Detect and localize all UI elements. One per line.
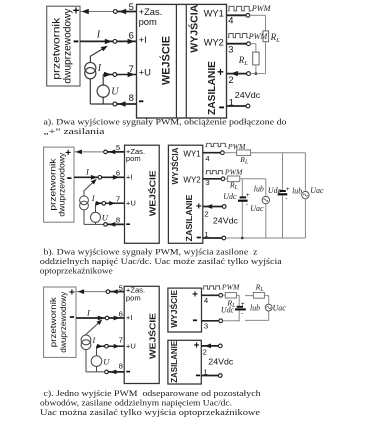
- wire 3 (c): [202, 319, 241, 323]
- wire 6 (c): [76, 307, 124, 320]
- svg-text:ZASILANIE: ZASILANIE: [184, 194, 194, 241]
- svg-text:pom: pom: [126, 154, 141, 163]
- svg-text:WYJŚCIE: WYJŚCIE: [168, 289, 179, 327]
- svg-text:5: 5: [129, 1, 134, 12]
- svg-text:ZASILANIE: ZASILANIE: [170, 340, 179, 383]
- wire 7 (c): [97, 344, 125, 349]
- svg-text:-: -: [285, 195, 287, 202]
- svg-text:6: 6: [116, 169, 120, 178]
- svg-text:lub: lub: [292, 187, 302, 196]
- svg-text:7: 7: [119, 336, 123, 345]
- svg-text:PWM: PWM: [224, 167, 243, 176]
- wire 1 (b) and common return rail: [203, 236, 306, 240]
- wire 8 (c): [86, 370, 124, 375]
- svg-text:Uac: Uac: [250, 204, 264, 213]
- wire 4 (a) with load RL to +supply: [227, 13, 281, 73]
- terminal numbers 5-8 (a): [129, 1, 134, 103]
- svg-text:Udc: Udc: [221, 305, 235, 314]
- svg-text:WEJŚCIE: WEJŚCIE: [147, 170, 158, 216]
- resistor RL1 (a): [263, 31, 269, 42]
- svg-text:obwodów, zasilane oddzielnym n: obwodów, zasilane oddzielnym napięciem U…: [40, 399, 232, 408]
- wire 4 (b): [203, 150, 306, 165]
- svg-text:„+” zasilania: „+” zasilania: [44, 127, 105, 136]
- svg-text:+I: +I: [139, 34, 147, 45]
- svg-text:WY2: WY2: [183, 175, 201, 184]
- AC source Uac (b, WY2 branch): [250, 179, 269, 238]
- alternative load loop: resistor RL + AC source Uac (c): [245, 282, 286, 320]
- svg-text:dwuprzewodowy: dwuprzewodowy: [63, 8, 74, 84]
- svg-text:U: U: [103, 356, 110, 366]
- wire 6 (b): [74, 167, 125, 180]
- svg-text:Uac: Uac: [273, 304, 287, 313]
- svg-text:2: 2: [204, 210, 208, 219]
- input terminal labels (c): [126, 286, 145, 372]
- svg-text:3: 3: [228, 44, 233, 55]
- output +/- labels (c): [192, 290, 200, 376]
- svg-text:3: 3: [204, 321, 208, 330]
- resistor RL2 (a): [253, 52, 259, 65]
- svg-text:7: 7: [116, 195, 120, 204]
- wire 1 (c): [201, 374, 222, 378]
- voltage source U (b): [91, 203, 109, 224]
- wire 6 (a): transducer - / current loop to terminal 6: [80, 29, 137, 44]
- terminal numbers 5-8 (b): [116, 143, 120, 225]
- svg-text:6: 6: [119, 309, 123, 318]
- svg-text:24Vdc: 24Vdc: [235, 90, 261, 100]
- wire 4 (c) with resistor RL: [202, 293, 240, 309]
- svg-text:PWM: PWM: [251, 4, 272, 13]
- svg-text:+: +: [65, 148, 71, 159]
- module input box (b): [125, 145, 160, 243]
- svg-text:+: +: [196, 201, 202, 212]
- wire 5 (c): [76, 289, 124, 294]
- svg-text:WY1: WY1: [183, 149, 201, 158]
- svg-text:Udc: Udc: [268, 186, 282, 195]
- wire 7 (a): to terminal 7: [103, 72, 136, 77]
- capacitor Udc (c): [221, 295, 246, 321]
- svg-text:+: +: [217, 67, 224, 79]
- svg-text:8: 8: [119, 362, 123, 371]
- current source I (a): [85, 46, 108, 104]
- voltage source U (c): [91, 346, 110, 372]
- svg-text:24Vdc: 24Vdc: [213, 217, 238, 226]
- PWM waveform (c): [203, 282, 240, 291]
- svg-text:przetwornik: przetwornik: [48, 296, 58, 347]
- svg-text:+: +: [246, 192, 250, 199]
- svg-text:WEJŚCIE: WEJŚCIE: [146, 313, 157, 359]
- terminal numbers 4,3,2,1 (a): [228, 15, 234, 108]
- svg-text:WY2: WY2: [204, 38, 224, 48]
- svg-text:-: -: [241, 310, 243, 317]
- module supply box ZASILANIE (c): [168, 340, 201, 384]
- transducer box: przetwornik dwuprzewodowy (section b): [44, 147, 74, 222]
- wire 8 (a): bottom return to terminal 8: [90, 101, 136, 106]
- output labels WY1 WY2 and +/- (b): [183, 149, 201, 237]
- wire 7 (b): [96, 201, 125, 206]
- terminal numbers 4,3,2,1 (b): [204, 154, 210, 239]
- resistor RL1 (b): [237, 150, 251, 156]
- svg-text:24Vdc: 24Vdc: [208, 357, 233, 366]
- svg-text:oddzielnych napięć Uac/dc. Uac: oddzielnych napięć Uac/dc. Uac może zasi…: [40, 257, 282, 266]
- svg-text:+I: +I: [126, 313, 133, 322]
- wire 2 (a): +24V supply: [227, 71, 266, 76]
- resistor RL2 (b): [228, 176, 240, 182]
- svg-text:+I: +I: [126, 173, 133, 182]
- svg-text:5: 5: [116, 143, 120, 152]
- wire 2 (b): +24V: [203, 204, 226, 209]
- svg-text:PWM: PWM: [248, 32, 269, 41]
- wire 2 (c): +24V: [201, 344, 222, 349]
- current source I (c): [81, 319, 102, 372]
- svg-text:Udc: Udc: [223, 192, 237, 201]
- svg-text:U: U: [111, 87, 119, 98]
- input terminal labels (b): [126, 147, 145, 224]
- svg-text:4: 4: [205, 154, 210, 163]
- transducer box: przetwornik dwuprzewodowy (section a): [47, 6, 80, 86]
- input terminal labels (a): [139, 6, 163, 101]
- svg-text:+: +: [194, 341, 200, 352]
- svg-text:6: 6: [129, 30, 134, 41]
- svg-text:dwuprzewodowy: dwuprzewodowy: [57, 152, 67, 217]
- module output box WYJSCIE (c): [168, 288, 202, 332]
- svg-text:2: 2: [228, 74, 233, 85]
- svg-text:przetwornik: przetwornik: [51, 17, 62, 80]
- wire 5 (a): transducer + to terminal 5: [80, 9, 137, 14]
- svg-text:+: +: [241, 301, 245, 308]
- svg-text:5: 5: [119, 283, 123, 292]
- wire 1 (a): supply return: [227, 104, 250, 108]
- svg-text:pom: pom: [126, 294, 141, 303]
- terminal numbers 5-8 (c): [119, 283, 123, 370]
- transducer box: przetwornik dwuprzewodowy (section c): [44, 287, 76, 357]
- main module box (a): WEJSCIE / WYJSCIA / ZASILANIE: [137, 4, 227, 118]
- svg-text:U: U: [102, 213, 109, 223]
- svg-text:dwuprzewodowy: dwuprzewodowy: [58, 291, 68, 353]
- svg-text:WY1: WY1: [204, 9, 224, 19]
- svg-text:+: +: [286, 186, 290, 193]
- wire 5 (b): [74, 150, 125, 155]
- svg-text:lub: lub: [254, 185, 264, 194]
- svg-text:Uac można zasilać tylko wyjści: Uac można zasilać tylko wyjścia optoprze…: [40, 408, 260, 417]
- svg-text:+U: +U: [139, 66, 151, 77]
- svg-text:pom: pom: [139, 16, 157, 27]
- svg-text:8: 8: [116, 216, 120, 225]
- svg-text:b). Dwa wyjściowe sygnały PWM,: b). Dwa wyjściowe sygnały PWM, wyjścia z…: [44, 248, 258, 257]
- svg-text:7: 7: [129, 63, 134, 74]
- svg-text:4: 4: [228, 15, 233, 26]
- svg-text:I: I: [97, 63, 102, 74]
- terminal numbers 4,3,2,1 (c): [203, 296, 209, 376]
- voltage source U (a): [97, 75, 119, 105]
- svg-text:4: 4: [204, 296, 209, 305]
- module input box (c): [124, 286, 159, 383]
- svg-text:WEJŚCIE: WEJŚCIE: [159, 36, 172, 85]
- capacitor Udc (b, WY1 branch): [268, 153, 290, 238]
- svg-text:-: -: [246, 201, 248, 208]
- PWM waveform WY1 (a): [228, 4, 272, 13]
- resistor RL (c): [225, 293, 236, 298]
- wire 8 (b): [84, 222, 125, 227]
- svg-text:optoprzekaźnikowe: optoprzekaźnikowe: [40, 266, 113, 275]
- svg-text:+: +: [192, 290, 198, 301]
- PWM waveform WY2 (b): [206, 167, 243, 176]
- PWM waveform WY2 (a): [228, 32, 269, 41]
- svg-text:a). Dwa wyjściowe sygnały PWM,: a). Dwa wyjściowe sygnały PWM, obciążeni…: [44, 118, 287, 127]
- capacitor Udc (b, WY2 branch): [223, 179, 250, 238]
- svg-text:WYJŚCIA: WYJŚCIA: [169, 147, 180, 184]
- svg-text:+: +: [69, 288, 75, 299]
- svg-text:lub: lub: [250, 304, 260, 313]
- current source I (b): [80, 179, 97, 225]
- svg-text:I: I: [96, 29, 101, 40]
- AC source Uac (b, WY1 branch): [292, 153, 324, 238]
- svg-text:PWM: PWM: [221, 282, 240, 291]
- svg-text:+U: +U: [126, 199, 136, 208]
- svg-text:2: 2: [203, 348, 207, 357]
- svg-text:WYJŚCIA: WYJŚCIA: [188, 5, 201, 53]
- svg-text:c). Jedno wyjście PWM odsepar: c). Jedno wyjście PWM odseparowane od po…: [44, 389, 262, 398]
- svg-text:8: 8: [129, 92, 134, 103]
- module output box (b): [168, 145, 202, 243]
- svg-text:Uac: Uac: [310, 186, 324, 195]
- wire 3 (b): [203, 176, 266, 191]
- svg-text:+U: +U: [126, 341, 136, 350]
- output labels WY1 WY2 and +/- (a): [204, 9, 224, 108]
- PWM waveform WY1 (b): [206, 142, 246, 151]
- svg-text:+: +: [73, 6, 80, 18]
- wire 3 (a) with load RL to +supply: [227, 42, 260, 75]
